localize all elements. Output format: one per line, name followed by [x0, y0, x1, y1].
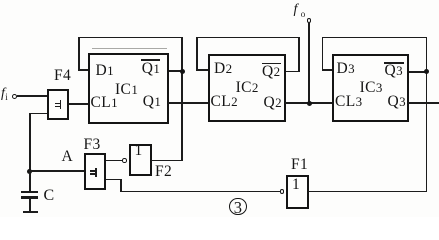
figure number circled 3 — [229, 198, 247, 216]
capacitor C lead top — [29, 171, 31, 191]
gate F3 label — [84, 137, 101, 153]
pin label D1 — [96, 63, 114, 79]
gate F2 label — [155, 164, 172, 180]
node junction Q3bar dot — [424, 69, 429, 74]
flipflop IC3 name — [360, 80, 383, 96]
flipflop IC2 feedback loop left vertical wire — [196, 37, 198, 71]
pin label Q2bar overline — [262, 63, 282, 65]
flipflop IC1 name — [115, 82, 138, 98]
wire node A to F3 input — [29, 170, 85, 172]
pin label Q2bar — [262, 64, 280, 80]
gate F4 schmitt symbol — [0, 0, 439, 1]
node A junction dot — [27, 169, 32, 174]
node fo terminal circle — [307, 18, 312, 23]
wire vertical F4 input to node A — [29, 113, 31, 172]
capacitor C label — [44, 188, 55, 204]
wire Q3 output to right edge — [408, 102, 439, 104]
flipflop IC1 feedback loop top wire — [78, 37, 183, 39]
wire D2 input stub — [196, 69, 210, 71]
wire F4 lower input left — [29, 113, 47, 115]
pin label Q3 — [388, 94, 406, 110]
pin label Q1 — [143, 94, 161, 110]
flipflop IC3 box — [332, 54, 409, 122]
wire fi to F4 input — [17, 95, 48, 97]
flipflop IC2 box — [208, 54, 286, 122]
flipflop IC2 feedback loop top wire — [196, 37, 300, 39]
pin label CL1 — [91, 95, 118, 111]
node fo output label — [294, 3, 306, 17]
node fi terminal circle — [12, 94, 17, 99]
flipflop IC3 feedback loop top wire — [322, 37, 428, 39]
wire vertical Q3bar loop down to F1 output — [426, 37, 428, 193]
wire long bottom to F1 input — [120, 191, 280, 193]
node junction Q1bar dot — [180, 69, 185, 74]
gate F3 box — [84, 153, 106, 190]
wire Q2bar output stub — [285, 71, 299, 73]
pin label Q1bar overline — [141, 59, 160, 61]
wire F3 upper output to F2 bubble — [106, 160, 123, 162]
gate F4 label — [54, 68, 71, 84]
wire F3 lower output — [106, 179, 122, 181]
capacitor C — [0, 0, 439, 1]
wire vertical F3 lower output down — [120, 179, 122, 192]
node fi input terminal label — [1, 87, 8, 101]
wire D1 input stub — [78, 69, 88, 71]
flipflop IC1 bleed-through artifact line — [92, 48, 168, 49]
wire Q1bar output stub — [168, 70, 182, 72]
wire Q2 to CL3 — [285, 102, 333, 104]
wire fo vertical — [308, 23, 310, 104]
pin label D2 — [214, 61, 232, 77]
gate F2 box — [129, 144, 152, 176]
gate F1 input bubble — [280, 189, 285, 194]
wire D3 input stub — [322, 69, 333, 71]
pin label Q1bar — [142, 61, 160, 77]
wire F2 output to Q1bar vertical — [151, 160, 182, 162]
wire vertical Q1bar loop down to F2 output — [181, 37, 183, 162]
pin label Q2 — [264, 95, 282, 111]
flipflop IC3 feedback loop left vertical wire — [322, 37, 324, 71]
gate F2 input bubble — [122, 158, 127, 163]
flipflop IC1 feedback loop left vertical wire — [78, 37, 80, 71]
gate F1 label — [291, 157, 308, 173]
flipflop IC2 name — [236, 80, 259, 96]
pin label D3 — [337, 61, 355, 77]
flipflop IC2 feedback loop right vertical wire — [298, 37, 300, 72]
pin label CL3 — [335, 94, 362, 110]
wire F4 output to CL1 — [69, 103, 90, 105]
gate F1 box — [286, 175, 309, 209]
gate F2 symbol 1 — [135, 143, 143, 159]
pin label CL2 — [211, 94, 238, 110]
node junction fo dot — [307, 101, 312, 106]
wire F1 output to Q3bar vertical — [308, 191, 427, 193]
node A label — [62, 149, 74, 165]
pin label Q3bar — [385, 63, 403, 79]
gate F3 schmitt symbol — [0, 0, 439, 1]
flipflop IC1 box — [88, 53, 169, 124]
wire Q3bar output stub — [408, 71, 426, 73]
wire Q1 to CL2 — [168, 102, 210, 104]
pin label Q3bar overline — [384, 62, 404, 64]
gate F4 box — [47, 89, 69, 121]
gate F1 symbol 1 — [292, 177, 300, 193]
